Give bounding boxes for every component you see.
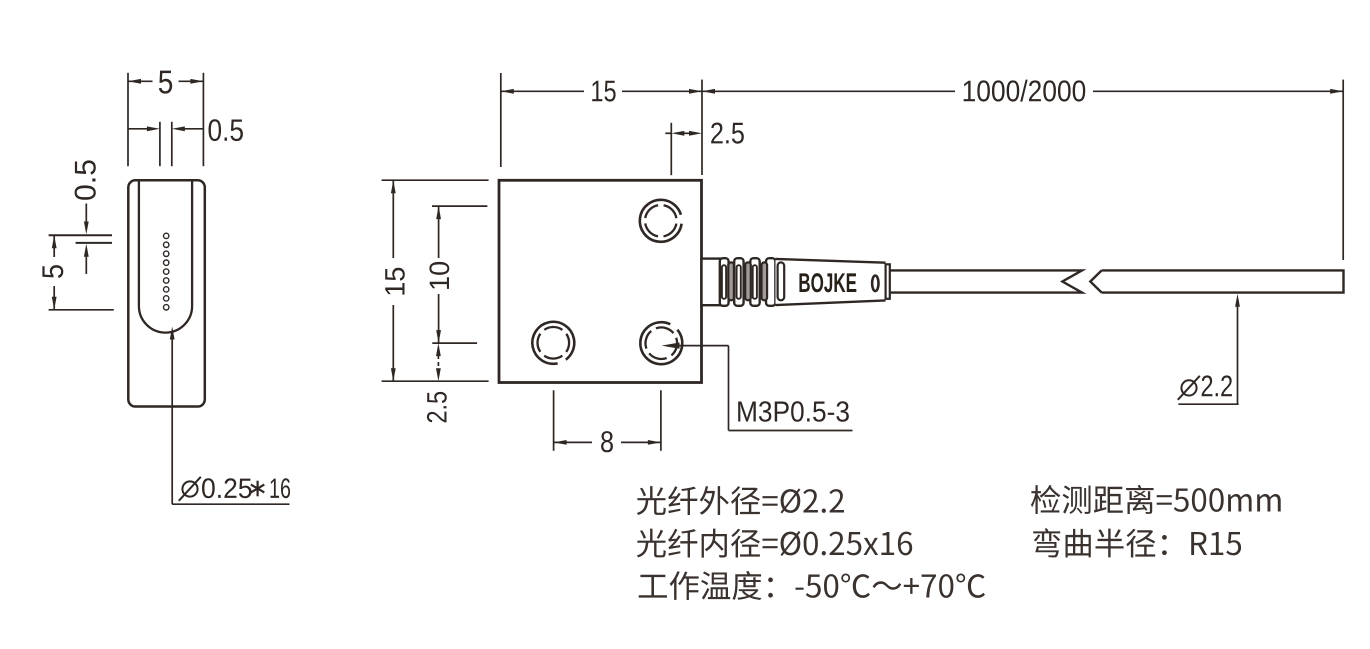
dim label 5 top-left (159, 71, 172, 94)
dim 5 top-left extension line right (202, 73, 204, 166)
bellows ridge 3 (750, 258, 759, 306)
dim label 5 left rotated (42, 265, 63, 278)
dim 5 left vertical dimension line with arrows (53, 235, 55, 257)
dim 2.5 top tick (670, 123, 672, 175)
cable segment 2 with break chevron (1090, 270, 1343, 292)
boot bottom edge (776, 300, 886, 305)
dim 0.5 left up arrow (84, 244, 89, 257)
boot body fill (776, 259, 886, 305)
dim 2.5 top left stub (665, 132, 671, 134)
bellows groove 2 (gray) (745, 262, 751, 300)
threaded hole bottom-right outer arc (632, 314, 691, 373)
dim label 10 rotated (429, 262, 449, 289)
dim 1000/2000 dimension line with arrows (702, 90, 955, 92)
dim label 0.5 top-left (209, 119, 243, 141)
threaded hole top-right outer arc (637, 197, 684, 244)
label M3P0.5-3 (738, 401, 849, 422)
bellows ridge 1 (720, 258, 729, 306)
spec text: 工作温度：-50℃～+70℃ (639, 571, 985, 600)
dim 15 top / 2.5 shared extension line right (701, 80, 703, 175)
dim 8 dimension line with arrows (554, 441, 592, 443)
fiber slot right wall (191, 181, 193, 307)
cable segment 1 with break chevron (890, 270, 1082, 292)
dim 10 bottom extension line (432, 342, 477, 344)
dim label 2.5 top (711, 122, 744, 143)
threaded hole bottom-left outer arc (528, 318, 578, 368)
dim label 15 left rotated (385, 268, 405, 295)
dim 10 top extension line (432, 205, 487, 207)
bellows groove 3 (gray) (762, 262, 768, 300)
bellows ridge 2 (734, 258, 743, 306)
dim 2.5 bottom-left arrows (436, 343, 441, 356)
diameter symbol for 2.2 (1181, 380, 1196, 395)
dim 8 left extension line (553, 390, 555, 451)
sensor square body top view (499, 180, 702, 382)
dim 5 top-left dimension line with arrows (128, 80, 153, 82)
diameter symbol for 0.25 (182, 481, 197, 496)
dim 15 top extension line left (500, 73, 502, 167)
dim 15 left dimension line with arrows (392, 180, 394, 258)
dim 15 left top extension line (382, 179, 489, 181)
bellows ridge 4 (766, 258, 775, 306)
dim 5 left bottom extension line (49, 309, 114, 311)
threaded hole bottom-left inner dashed circle (531, 321, 575, 365)
label 16 (270, 478, 290, 498)
dim 8 right extension line (660, 390, 662, 451)
threaded hole bottom-right inner dashed circle (641, 323, 682, 364)
spec text: 光纤外径=Ø2.2 (637, 486, 844, 515)
dim 10 dimension line with arrows (438, 206, 440, 258)
small hole on boot (872, 276, 878, 292)
fiber slot left wall (138, 181, 140, 307)
threaded hole top-right inner dashed circle (642, 202, 679, 239)
slot edge-on upper line (49, 234, 112, 236)
leader arrow cable diameter (1235, 294, 1240, 307)
dim 0.5 ticks (159, 122, 161, 166)
slot edge-on lower line (76, 242, 112, 244)
dim 15 left bottom extension line (382, 380, 489, 382)
dim label 1000/2000 (964, 80, 1086, 102)
BOJKE brand label (799, 273, 856, 292)
connector stub (702, 259, 721, 306)
boot end cap band (886, 264, 890, 299)
dim label 0.5 left rotated (75, 160, 96, 199)
spec text: 弯曲半径：R15 (1033, 528, 1241, 557)
dim label 8 (601, 431, 613, 452)
dim label 2.5 bottom-left rotated (427, 392, 447, 422)
dim 5 top-left extension line left (127, 73, 129, 166)
dim 2.5 top arrows (671, 131, 684, 136)
dim 0.5 dimension line with arrows (128, 128, 148, 130)
leader arrow M3 hole (662, 343, 680, 349)
bellows fold line 3 (753, 265, 757, 299)
fiber dot column (9 fibers) (164, 233, 169, 310)
bellows groove 1 (gray) (728, 262, 734, 300)
dim 0.5 left down arrow (85, 204, 87, 224)
bellows fold line 1 (722, 265, 726, 299)
dim label 15 top (592, 81, 615, 102)
boot start capsule (778, 262, 785, 300)
label 2.2 (1202, 375, 1232, 396)
spec text: 检测距离=500mm (1031, 485, 1281, 514)
label 0.25 (202, 478, 251, 498)
asterisk star (251, 481, 264, 497)
sensor body side view outline (128, 180, 205, 406)
dim 1000/2000 right extension line (1342, 80, 1344, 260)
bellows fold line 2 (737, 265, 741, 299)
fiber slot U bottom arc (139, 306, 192, 333)
spec text: 光纤内径=Ø0.25x16 (637, 529, 912, 558)
leader arrow to fiber tip (170, 327, 175, 340)
dim 15 top dimension line with arrows (501, 90, 584, 92)
boot top edge (776, 259, 886, 263)
